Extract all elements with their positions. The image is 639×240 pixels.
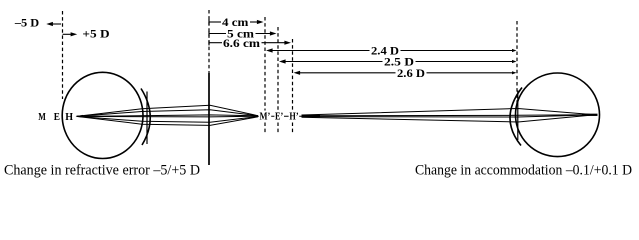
dashed vertical at right eye cornea xyxy=(516,21,518,104)
right eye globe xyxy=(516,73,600,157)
svg-text:Change in accommodation –0.1/+: Change in accommodation –0.1/+0.1 D xyxy=(415,163,632,179)
svg-text:E’: E’ xyxy=(275,111,283,122)
node: object plane dashed vertical (left, -5/+5 D) xyxy=(62,11,64,99)
dashed vertical through H' (upper) xyxy=(292,39,294,111)
ray upper xyxy=(302,109,591,116)
label H' backing xyxy=(289,111,300,122)
svg-text:6.6 cm: 6.6 cm xyxy=(223,36,260,50)
label M' backing xyxy=(259,111,271,122)
ray bundle: left eye to image point M' xyxy=(77,105,259,125)
trial lens: dashed upper part xyxy=(208,10,210,73)
ray lower xyxy=(302,115,591,122)
svg-text:E: E xyxy=(54,112,60,123)
dashed vertical through E' (lower) xyxy=(277,123,279,135)
label -5 D with left arrow xyxy=(14,16,61,30)
ray lower inner xyxy=(77,116,259,122)
dashed vertical through M' (lower) xyxy=(264,123,266,135)
retinal point H (left eye) xyxy=(76,115,84,118)
dashed vertical through H' (lower) xyxy=(292,123,294,135)
right eye lens chord xyxy=(517,91,519,141)
dimension 2.5 D xyxy=(279,55,517,69)
label E' backing xyxy=(274,111,284,122)
svg-text:H: H xyxy=(65,112,73,123)
ray axis lower xyxy=(302,115,591,117)
svg-text:Change in refractive error –5/: Change in refractive error –5/+5 D xyxy=(4,163,200,179)
dashed vertical through M' (upper) xyxy=(264,17,266,111)
dashed vertical through E' (upper) xyxy=(277,27,279,111)
ray axis upper xyxy=(77,115,259,117)
dimension 2.6 D xyxy=(294,66,517,80)
dimension 6.6 cm xyxy=(209,36,291,50)
ray upper inner xyxy=(77,110,259,117)
svg-text:H’: H’ xyxy=(289,111,298,122)
svg-text:M: M xyxy=(38,112,46,123)
svg-text:–5 D: –5 D xyxy=(14,16,40,30)
svg-text:M’: M’ xyxy=(260,111,271,122)
left eye cornea arc xyxy=(141,89,150,146)
ray axis lower xyxy=(77,115,259,118)
right eye cornea arc xyxy=(510,88,522,146)
converged beam bar at right retina xyxy=(582,114,598,116)
dimension 2.4 D xyxy=(266,44,517,58)
trial lens: solid line xyxy=(208,73,210,165)
optical axis behind image point labels xyxy=(256,115,303,117)
ray upper outer xyxy=(77,105,259,116)
left eye lens chord xyxy=(146,92,148,145)
label +5 D with right arrow xyxy=(63,27,110,41)
svg-text:2.6 D: 2.6 D xyxy=(397,66,425,80)
ray axis upper xyxy=(302,115,591,116)
converged beam bar after H' xyxy=(302,115,320,117)
dimension 4 cm xyxy=(209,15,264,29)
left eye globe xyxy=(62,72,143,158)
ray lower outer xyxy=(77,116,259,125)
ray bundle: image points to right eye retina xyxy=(302,109,591,123)
dimension 5 cm xyxy=(209,27,277,41)
svg-text:+5 D: +5 D xyxy=(82,27,110,41)
